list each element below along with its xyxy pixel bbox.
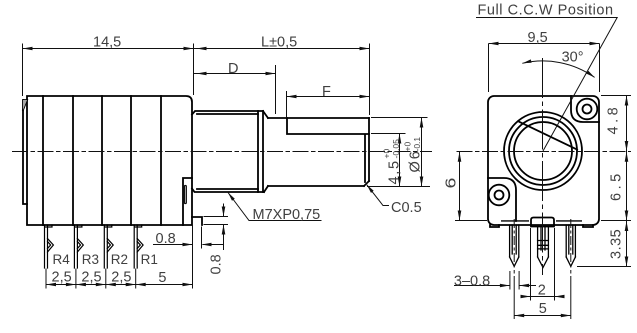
extension line 14.5 left (22, 44, 24, 97)
dim line D (194, 73, 276, 75)
pin R3 barb (77, 239, 83, 253)
right foot (583, 225, 593, 227)
svg-text:M7XP0,75: M7XP0,75 (253, 207, 321, 223)
svg-text:R4: R4 (53, 252, 71, 267)
extension line F left (286, 91, 288, 117)
dim 3-0.8 line (454, 285, 510, 287)
extension line body right / shared (193, 44, 195, 96)
arrows 0.8 vertical (222, 207, 226, 217)
extension pin tip right (577, 266, 631, 268)
body section divider 4 (130, 96, 132, 225)
extension line shaft end (369, 44, 371, 116)
svg-text:Ø6: Ø6 (408, 149, 424, 172)
text dia6 tol (403, 137, 424, 173)
arrows 4.5 (398, 134, 402, 144)
svg-text:-0.1: -0.1 (412, 137, 422, 152)
body section divider 2 (72, 96, 74, 225)
svg-text:R1: R1 (141, 252, 158, 267)
bushing end chamfer bottom (264, 186, 268, 192)
svg-text:R2: R2 (111, 252, 128, 267)
arrows F (287, 95, 297, 99)
pin R4 (45, 225, 53, 268)
top right pad circle outer (577, 99, 598, 120)
rotor circle inner (514, 122, 572, 180)
arrows L (197, 47, 207, 51)
svg-text:-0.05: -0.05 (391, 139, 401, 159)
dim line 6 (459, 152, 461, 221)
slot line (519, 122, 577, 150)
pin centerline left (513, 219, 515, 274)
dim line L (194, 48, 370, 50)
svg-text:0.8: 0.8 (209, 254, 225, 274)
centerline left view (12, 151, 432, 153)
shaft bottom (268, 185, 364, 187)
bushing root top (197, 113, 258, 115)
front pin center tip (538, 257, 549, 268)
arrows dia6 (420, 118, 424, 128)
extension line flat top right (371, 133, 406, 135)
dim line 9.5 (489, 43, 600, 45)
svg-text:2,5: 2,5 (81, 270, 101, 286)
extension top right (601, 95, 631, 97)
rear bracket edge (183, 178, 192, 225)
text 3.35 (609, 229, 625, 259)
dim 5 line (514, 315, 571, 317)
extension tab right edge (201, 227, 203, 249)
svg-text:30°: 30° (562, 50, 584, 66)
arrows 14.5 (23, 47, 33, 51)
svg-text:5: 5 (158, 270, 166, 286)
bushing relief groove wall 1 (257, 111, 259, 192)
svg-text:9,5: 9,5 (528, 30, 548, 46)
front pin left tip (510, 257, 519, 266)
front pin left (510, 225, 519, 257)
pin R2 (104, 225, 112, 268)
svg-text:14,5: 14,5 (93, 35, 121, 51)
seating face line segments (501, 220, 582, 222)
svg-text:+0: +0 (382, 149, 392, 159)
top right pad (571, 96, 599, 122)
svg-text:2,5: 2,5 (111, 270, 131, 286)
cap chamfer (23, 100, 27, 110)
shaft chamfer edge (364, 135, 366, 182)
extension tab top right (204, 216, 229, 218)
body section divider 3 (101, 96, 103, 225)
bushing crest top (192, 111, 263, 115)
arc arrow left (523, 59, 532, 63)
body section divider 5 (160, 96, 162, 225)
bottom tab (192, 217, 202, 225)
30 deg arc (522, 61, 594, 77)
shaft end chamfer (364, 181, 369, 186)
centerline right view vertical (542, 58, 544, 275)
front body outline (488, 96, 599, 225)
pin R1 barb (137, 239, 143, 253)
top right pad circle inner (583, 105, 592, 114)
text 0.8 vertical (209, 254, 225, 274)
extension line shaft top right (371, 117, 428, 119)
pin R1 (134, 225, 142, 268)
extension bottom right (601, 220, 631, 222)
body section divider 1 (42, 96, 44, 225)
dim line pins (46, 284, 193, 286)
extension line D right (275, 65, 277, 114)
leader M7XP0.75 (228, 193, 322, 221)
extension 9.5 left (488, 44, 490, 93)
svg-text:R3: R3 (82, 252, 99, 267)
svg-text:4.8: 4.8 (606, 104, 622, 135)
dim line 3.35 (626, 221, 628, 267)
pin R4 barb (48, 239, 54, 253)
dim 0.8 vertical line (223, 204, 225, 217)
text 4.8 (606, 104, 622, 135)
text 6 (442, 178, 459, 189)
front pin right tip (566, 257, 575, 266)
rotor circle middle (509, 117, 577, 185)
rotor circle outer (504, 112, 582, 190)
front pin center (538, 227, 549, 258)
text 6.5 (609, 170, 625, 201)
bottom left pad circle inner (495, 191, 504, 200)
extension lines 5 (513, 276, 515, 319)
dim 0.8 horizontal lines (153, 244, 193, 246)
extension lines 3-0.8 (510, 271, 519, 290)
extension 9.5 right (599, 44, 601, 93)
arrows D (197, 72, 207, 76)
front pin center bands (538, 241, 549, 249)
svg-text:L±0,5: L±0,5 (261, 35, 297, 51)
svg-text:6.5: 6.5 (609, 170, 625, 201)
pin R2 barb (107, 239, 113, 253)
left foot (490, 225, 499, 227)
dim line 4.8 6.5 (626, 96, 628, 221)
dim 2 line (522, 296, 563, 298)
dim line dia6 (421, 118, 423, 187)
cap chamfer shading (23, 100, 27, 110)
bushing crest bottom (192, 189, 264, 193)
arrows 0.8 horizontal (183, 243, 193, 247)
extension bottom left (455, 220, 487, 222)
svg-text:2,5: 2,5 (52, 270, 72, 286)
svg-text:5: 5 (539, 301, 547, 317)
svg-text:3–0.8: 3–0.8 (454, 274, 490, 290)
svg-text:3.35: 3.35 (609, 229, 625, 259)
extension tab bottom right (204, 224, 229, 226)
centerline right view horizontal (457, 151, 632, 153)
svg-text:C0.5: C0.5 (391, 200, 422, 216)
svg-text:F: F (322, 84, 331, 100)
pin centerline right (570, 219, 572, 274)
dim line 14.5 (23, 48, 194, 50)
center boss (531, 218, 554, 227)
text 4.5 tol (382, 139, 403, 185)
extension lines pin centers (45, 269, 47, 289)
arrows pin dims (46, 283, 56, 287)
svg-text:6: 6 (442, 178, 459, 189)
extension line shaft bottom right (367, 186, 430, 188)
shaft flat edge (287, 118, 369, 134)
svg-text:+0: +0 (403, 142, 413, 152)
bottom left pad circle outer (489, 185, 510, 206)
dim line F (287, 96, 370, 98)
svg-text:Full C.C.W Position: Full C.C.W Position (478, 3, 614, 19)
bushing end chamfer top (263, 111, 268, 118)
bushing root bottom (197, 188, 258, 190)
rear bracket slot (184, 186, 186, 204)
svg-text:2: 2 (538, 283, 546, 299)
svg-text:0.8: 0.8 (156, 231, 176, 247)
svg-text:4,5: 4,5 (387, 159, 403, 184)
shaft end face (368, 118, 370, 181)
dim line 4.5 (399, 134, 401, 187)
body outline left view (27, 96, 192, 225)
extension lines 2 (530, 228, 532, 301)
bushing relief groove wall 2 (262, 111, 264, 192)
shaft top (268, 117, 369, 119)
svg-text:D: D (228, 61, 238, 77)
leader C0.5 (367, 185, 389, 206)
extension body right down (192, 225, 194, 289)
front pin right (566, 225, 575, 257)
arc arrow right (586, 71, 594, 78)
bottom left pad (488, 178, 516, 221)
left cover cap (23, 100, 27, 204)
full ccw leader line (476, 18, 617, 152)
pin R3 (74, 225, 82, 268)
